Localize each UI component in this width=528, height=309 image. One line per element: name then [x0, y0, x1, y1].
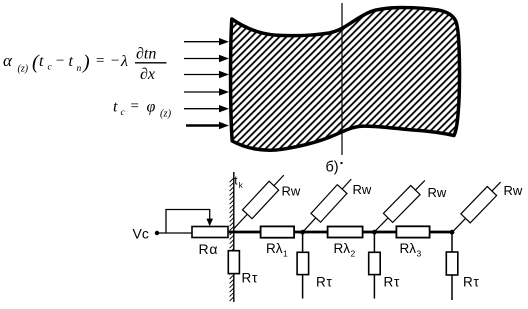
node Vc terminal — [155, 231, 159, 235]
wall surface t_k (hatched line) — [230, 172, 234, 302]
equation alpha(z)(tc - tn) = -lambda dtn/dx — [3, 46, 156, 84]
heat flux arrow 1 — [184, 38, 229, 45]
svg-text:n: n — [77, 64, 82, 74]
svg-text:Rτ: Rτ — [463, 275, 480, 290]
label Rlambda2 — [334, 241, 356, 259]
svg-text:t: t — [69, 53, 74, 70]
svg-text:α: α — [3, 51, 13, 70]
resistor Rw3 (diagonal) — [370, 176, 430, 236]
label Rlambda1 — [266, 241, 288, 259]
resistor Rw1 (diagonal) — [229, 171, 288, 233]
svg-text:Rw: Rw — [282, 184, 301, 199]
svg-text:(z): (z) — [160, 109, 172, 120]
svg-text:t: t — [39, 53, 44, 70]
resistor Rlambda2 — [328, 227, 363, 238]
resistor Rtau2 — [297, 252, 309, 274]
svg-text:Rλ: Rλ — [400, 241, 417, 256]
equation tc = phi(z) — [113, 99, 172, 120]
wire N1 to Rtau2 — [302, 232, 304, 252]
svg-text:1: 1 — [283, 249, 288, 259]
wire below Rtau3 — [373, 275, 375, 299]
node N3 — [450, 230, 455, 235]
resistor Rtau3 — [369, 252, 381, 274]
svg-text:t: t — [113, 99, 118, 116]
svg-text:−: − — [110, 53, 120, 69]
svg-text:2: 2 — [351, 249, 356, 259]
wire N3 to Rtau4 — [451, 232, 453, 252]
heat flux arrow 6 — [186, 122, 229, 129]
svg-text:Rτ: Rτ — [242, 271, 259, 286]
resistor Rtau1 — [228, 251, 239, 274]
resistor Rtau4 — [446, 252, 458, 275]
heat flux arrow 5 — [184, 105, 229, 112]
resistor Rw2 (diagonal) — [298, 175, 356, 237]
node N1 — [300, 230, 305, 235]
wire below Rtau4 — [451, 275, 453, 300]
svg-text:φ: φ — [147, 99, 156, 116]
svg-text:=: = — [95, 53, 105, 69]
svg-text:Rw: Rw — [353, 182, 372, 197]
fraction bar — [135, 62, 167, 64]
heat flux arrow 4 — [184, 88, 229, 95]
svg-text:λ: λ — [120, 53, 128, 70]
svg-text:б): б) — [326, 160, 339, 176]
svg-text:∂x: ∂x — [140, 66, 155, 83]
svg-text:Rw: Rw — [504, 183, 523, 198]
wall body (hatched) — [231, 8, 460, 151]
svg-text:3: 3 — [417, 249, 422, 259]
resistor Ralpha — [192, 227, 228, 238]
svg-text:Rτ: Rτ — [316, 275, 333, 290]
svg-text:=: = — [130, 99, 140, 115]
wire N2 to Rtau3 — [373, 232, 375, 252]
wire bus (bold) Ralpha to N3 — [228, 231, 452, 234]
node N2 — [372, 230, 377, 235]
dot after b) — [341, 162, 343, 164]
svg-text:Rλ: Rλ — [266, 241, 283, 256]
section line — [341, 3, 343, 155]
svg-text:(z): (z) — [18, 64, 29, 75]
resistor Rw4 (diagonal) — [447, 178, 505, 237]
resistor Rlambda1 — [261, 226, 295, 237]
label Rlambda3 — [400, 241, 422, 259]
wire below Rtau2 — [302, 275, 304, 299]
label t_k — [234, 174, 244, 191]
svg-text:Rα: Rα — [199, 241, 219, 257]
resistor Rlambda3 — [396, 226, 429, 237]
svg-text:−: − — [55, 53, 65, 69]
variable resistor arrow over Ralpha — [166, 210, 213, 233]
heat flux arrow 2 — [184, 55, 229, 62]
svg-text:Rλ: Rλ — [334, 241, 351, 256]
svg-text:): ) — [82, 52, 90, 74]
svg-text:∂tn: ∂tn — [136, 46, 156, 63]
svg-text:Rw: Rw — [428, 185, 447, 200]
svg-text:Vc: Vc — [133, 226, 149, 242]
svg-text:Rτ: Rτ — [384, 275, 401, 290]
heat flux arrow 3 — [184, 71, 229, 78]
wire Vc to Ralpha — [157, 232, 192, 234]
